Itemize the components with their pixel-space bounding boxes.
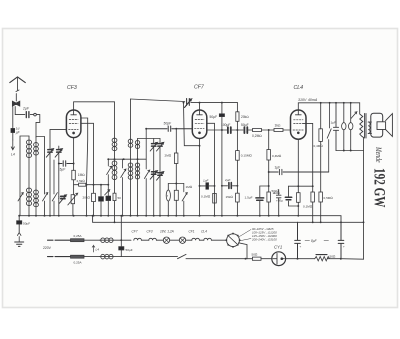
chassis bus 2 [93,216,364,223]
resistor 50k [267,192,271,202]
cap 100uF [228,127,231,133]
resistor (osc) [113,193,116,200]
padder cap 2 (black) [106,196,111,201]
svg-text:CF7: CF7 [194,85,205,91]
output cap 1uF [333,103,338,151]
resistor (g2 divider upper) [311,192,315,202]
mains RF cap 50uF (black) [120,216,122,247]
svg-text:+50µ: +50µ [276,198,283,202]
svg-text:L4: L4 [11,153,15,157]
coupling wire y130 [207,129,253,131]
label 8uF [305,240,329,242]
L4 arrow [92,246,95,253]
svg-text:50: 50 [118,196,122,200]
resistor 0.5M (divider lower) [319,192,323,202]
svg-text:CF3: CF3 [67,85,77,91]
svg-text:0,2MΩ: 0,2MΩ [252,134,262,138]
CF3 anode top wire [74,102,115,138]
wire vertical x54 + switch [52,160,57,216]
cathode bypass electrolytic 50uF [289,186,299,206]
svg-text:1µF: 1µF [331,121,337,125]
svg-text:0,4MΩ: 0,4MΩ [314,144,324,148]
oscillator coil 1 (x114.5) [114,138,116,222]
coupling link wire (CF7 cathode to g3 line) [200,185,215,187]
earth cap 50uF (black) [18,216,20,221]
svg-text:0,5MΩ: 0,5MΩ [324,196,334,200]
svg-text:5µF: 5µF [60,167,67,171]
osc band switch S5 [144,129,149,216]
wire CF3 grid input [50,129,66,131]
tap arrow [351,112,357,119]
CF7 cathode lead [199,139,201,216]
capacitor (aerial branch, black) [11,128,15,132]
wire jog to coil top [36,115,40,138]
svg-text:CF1: CF1 [189,229,195,233]
tone cap 1uF wire [269,169,329,174]
mains choke lower [100,256,178,258]
resistor 0.2M (horizontal) [253,129,262,132]
svg-text:0,15MΩ: 0,15MΩ [241,154,253,158]
band switch S2 [43,193,48,201]
mains line upper [48,239,71,241]
link wire [168,183,184,185]
svg-text:CF7: CF7 [132,229,138,233]
electrolytic can 2 [350,103,352,123]
svg-text:0,1MΩ: 0,1MΩ [303,205,313,209]
wire + connector circle [30,114,33,116]
electrolytic oval cap [167,184,169,191]
svg-text:100µF: 100µF [221,123,230,127]
lower right band coil [34,190,39,194]
svg-text:192 GW: 192 GW [371,168,388,208]
selector output [239,243,247,259]
CF7 grids [195,120,205,129]
CF7 grid input wire [184,103,200,146]
filter cap 1 (8uF) [295,222,301,258]
tube CF3 envelope [66,110,81,138]
HT bus [298,103,359,110]
fuse 0.25A lower [71,255,85,258]
svg-text:0,25A: 0,25A [74,261,83,265]
filter choke resistor [316,254,327,256]
resistor 0.4M (screen feed) [320,103,322,129]
padder cap 1 (black) [100,185,102,216]
speaker magnet [371,113,383,137]
resistor 1M (cathode) [73,164,75,171]
resistor 2.5k (horizontal) [74,184,79,186]
bottom HT return wire [341,258,364,261]
resistor 50ohm [252,257,261,260]
wire coil top link [20,136,29,216]
band switch S1 [18,193,23,201]
svg-text:0,4MΩ: 0,4MΩ [272,154,282,158]
svg-text:2,5kΩ: 2,5kΩ [77,179,86,183]
CF3 cathode lead [73,138,75,164]
svg-text:15kΩ: 15kΩ [226,195,234,199]
antenna coil secondary (upper right winding) [35,138,37,216]
svg-text:+: + [343,245,345,249]
resistor 0.4M vertical chain [268,130,270,150]
svg-text:CL4: CL4 [201,229,207,233]
arrow down (aerial option) [11,140,14,150]
svg-text:L4: L4 [96,248,100,252]
antenna connector break [16,90,19,101]
chassis bus 1 [19,216,341,223]
svg-text:220V: 220V [43,246,52,250]
spark gap [12,101,19,106]
speaker cone [386,114,393,137]
trimmer C6 (lower) [152,172,156,175]
svg-text:25kΩ: 25kΩ [58,195,66,199]
trimmer C2 (padder, right) [58,146,60,216]
cathode link wire [289,185,313,187]
CL4 cathode lead + bias resistor [297,139,299,216]
padding trimmer C5 [159,139,161,216]
CF7 anode top lead [199,103,201,110]
tone switch [327,103,331,172]
mains choke upper [100,239,132,241]
resistor 0.15M [236,151,240,161]
CF7 cathode [199,132,201,134]
antenna coil primary (upper left winding) [28,136,30,216]
top line B to osc coil 2 [130,99,132,216]
trimmer cap (CF7 anode circuit) [185,99,192,108]
svg-text:1MΩ: 1MΩ [186,185,193,189]
svg-text:1kΩ: 1kΩ [275,124,281,128]
speaker coil [377,122,386,130]
osc band switch S3 [107,159,112,216]
svg-text:CL4: CL4 [294,85,304,91]
osc section link wire [108,158,146,160]
junction dots [18,215,20,217]
filter cap 2 [338,222,344,259]
join wire [336,150,364,152]
CF7 anode [197,110,203,115]
svg-text:20kΩ: 20kΩ [241,115,249,119]
blocking cap 1uF (black) [206,183,209,190]
CF3 grid2 side wire [81,118,88,216]
electrolytic can 1 [343,103,345,123]
cap 50uF [244,127,247,133]
svg-text:Mende: Mende [374,146,383,163]
CL4 grid2 wire [303,123,313,192]
coil top link wire [138,138,161,140]
switch arrow [105,190,110,195]
cap 50pF in grid wire [146,126,192,131]
svg-text:50µF: 50µF [23,222,30,226]
oscillator coil 2 (x130.5) [128,139,133,143]
oscillator coil 3 (x137.5) [137,139,139,216]
CL4 grids [293,120,303,130]
CL4 anode [295,110,301,115]
CF3 cathode [73,132,75,134]
wire vertical x44.5 [36,137,45,216]
CF7 grid3 side wire [207,123,215,215]
switch S7 [182,184,187,216]
svg-text:CF3: CF3 [147,229,153,233]
padding trimmer C4 [153,139,155,216]
2M grid resistor (osc) [175,129,177,153]
svg-text:0,1MΩ: 0,1MΩ [201,195,211,199]
cap 1.5uF [260,186,269,216]
svg-text:18V, 1,2A: 18V, 1,2A [160,229,174,233]
resistor 20k (anode load) [236,103,238,112]
CF3 anode [71,110,77,115]
osc band switch S4 [121,159,126,216]
svg-text:200–240V→Ω3100: 200–240V→Ω3100 [251,237,277,241]
resistor 20k on g3 line [92,193,96,201]
connector chevron [17,233,21,242]
trimmer C3 (lower) [61,196,65,199]
svg-text:+: + [274,192,276,196]
trimmer C (padder, left) [49,130,51,216]
resistor (AVC) [175,184,177,191]
transformer secondary [368,122,370,133]
voltage selector [227,234,240,247]
resistor 0.1M on g3 line [213,193,217,203]
mains line lower [48,256,71,258]
electrolytic cap + [276,190,281,216]
output transformer primary [360,103,364,138]
lower left band coil [26,188,31,192]
tube CF7 envelope [192,110,207,139]
long right wire [363,138,365,260]
svg-text:50µF: 50µF [241,123,249,127]
CF3 grids (dashed) [69,120,79,130]
cap 50uF (black) on anode branch [221,103,223,114]
wire antenna to coupling cap [15,107,25,115]
trimmer C7 (lower) [158,173,162,176]
svg-text:50µF: 50µF [126,248,133,252]
svg-text:2µF: 2µF [22,107,30,111]
potentiometer 25k [71,195,75,204]
resistor 15k [236,193,240,202]
capacitor 5uF (cathode bypass) [59,161,74,166]
svg-text:50µF: 50µF [210,115,218,119]
resistor 1k to CL4 grid [274,129,283,132]
CY1 output wire [286,258,315,260]
svg-text:2µF: 2µF [224,178,232,182]
svg-text:1µF: 1µF [275,166,281,170]
svg-text:2MΩ: 2MΩ [165,154,172,158]
svg-text:+: + [300,245,302,249]
cap 2uF [229,183,231,189]
top line B with trimmer [131,99,185,102]
fuse 0.25A upper [71,239,85,242]
link wire (anode branch to 0.15M line) [222,130,238,216]
svg-text:50pF: 50pF [164,122,173,126]
tube CL4 envelope [291,110,307,139]
svg-text:50Ω: 50Ω [330,254,336,258]
transformer core [365,114,366,139]
mains switch [178,254,253,258]
selector leader lines [239,230,251,241]
svg-text:0,25A: 0,25A [74,234,83,238]
svg-text:1MΩ: 1MΩ [78,173,86,177]
svg-text:20kΩ: 20kΩ [83,196,91,200]
CL4 cathode [297,132,299,134]
antenna A [10,77,25,90]
svg-text:50Ω: 50Ω [252,252,258,256]
earth ground [15,242,24,246]
svg-text:310V 40mA: 310V 40mA [298,98,318,102]
CF3 grid3 side wire [81,123,94,215]
capacitor 2uF (antenna series) [26,112,29,118]
wire earth branch [12,107,14,140]
svg-text:1,5µF: 1,5µF [245,196,253,200]
svg-text:CY1: CY1 [274,245,282,250]
